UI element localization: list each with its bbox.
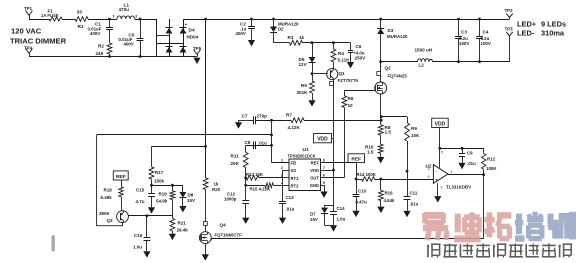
svg-text:LED+: LED+ bbox=[517, 20, 537, 29]
transistor Q4 mosfet bbox=[199, 232, 211, 244]
svg-text:R12: R12 bbox=[487, 157, 496, 162]
wire bridge AC stub upper bbox=[157, 35, 170, 37]
svg-text:OUT: OUT bbox=[310, 176, 319, 181]
wire U2 gnd bbox=[437, 183, 439, 196]
capacitor C16 bbox=[146, 216, 148, 238]
resistor R9 bbox=[405, 123, 410, 141]
svg-text:C14: C14 bbox=[337, 206, 346, 211]
net label REF left bbox=[113, 171, 128, 180]
pin marker Q2 bbox=[377, 72, 381, 76]
svg-text:GND: GND bbox=[310, 183, 319, 188]
svg-text:1.0u: 1.0u bbox=[133, 245, 142, 250]
capacitor C5 bbox=[140, 19, 142, 38]
watermark subtitle char 3 bbox=[459, 244, 461, 257]
svg-text:4.7u: 4.7u bbox=[136, 199, 145, 204]
svg-text:C8: C8 bbox=[245, 140, 251, 145]
ground U1 pin5 bbox=[320, 192, 327, 198]
wire Q2 gate row bbox=[344, 90, 374, 92]
svg-text:5.11K: 5.11K bbox=[338, 58, 351, 63]
svg-text:54.9k: 54.9k bbox=[156, 199, 168, 204]
capacitor C8 bbox=[253, 141, 255, 149]
capacitor C2 bbox=[251, 19, 253, 26]
wire fuse to R1 bbox=[62, 19, 75, 21]
ground below C9 bbox=[458, 163, 465, 169]
svg-text:C13: C13 bbox=[286, 195, 295, 200]
resistor R21 bbox=[172, 216, 174, 219]
svg-text:C6: C6 bbox=[356, 44, 362, 49]
svg-text:33: 33 bbox=[77, 10, 83, 16]
svg-text:L2: L2 bbox=[419, 63, 425, 68]
junction R4 top bbox=[332, 41, 335, 44]
svg-text:R20: R20 bbox=[212, 187, 221, 192]
svg-text:100V: 100V bbox=[481, 41, 491, 46]
wire bridge right column bbox=[183, 19, 185, 57]
svg-text:7: 7 bbox=[323, 166, 325, 170]
ground below R21 bbox=[169, 234, 176, 240]
wire pin8 to REF box bbox=[327, 162, 356, 164]
svg-text:R4: R4 bbox=[338, 51, 344, 56]
watermark subtitle char 8 bbox=[542, 244, 556, 246]
diode D5 zener bbox=[312, 43, 314, 57]
svg-text:29.4k: 29.4k bbox=[177, 227, 189, 232]
capacitor C11 bbox=[407, 171, 409, 197]
svg-text:R18: R18 bbox=[104, 188, 113, 193]
svg-text:5: 5 bbox=[323, 181, 325, 185]
wire top rail to TP2 bbox=[183, 19, 510, 21]
junction left net bbox=[270, 134, 273, 137]
wire sense to R9 bbox=[381, 116, 407, 118]
resistor R18 bbox=[121, 180, 123, 187]
junction RT1 left bbox=[244, 176, 247, 179]
svg-text:1.0u: 1.0u bbox=[337, 217, 346, 222]
svg-text:FB: FB bbox=[291, 161, 297, 166]
junction R2 bottom bbox=[108, 55, 111, 58]
svg-text:100V: 100V bbox=[459, 41, 469, 46]
wire bottom rail input bbox=[29, 56, 197, 58]
net label REF right bbox=[348, 154, 365, 163]
ground below C10 bbox=[352, 211, 359, 217]
junction C4 top bbox=[478, 18, 481, 21]
wire FB row to pin1 bbox=[272, 162, 290, 164]
wire clamp bottom bar bbox=[325, 225, 334, 227]
svg-text:MURA120: MURA120 bbox=[387, 34, 408, 39]
wire R1 to L1 bbox=[88, 19, 117, 21]
ground below R5 bbox=[308, 100, 315, 106]
ground below D8 bbox=[179, 206, 186, 212]
wire L1 to bridge bbox=[135, 19, 157, 21]
junction node A bbox=[150, 184, 153, 187]
U1 pin3 RT1 bbox=[284, 177, 290, 179]
svg-text:R19: R19 bbox=[159, 192, 168, 197]
svg-text:3906: 3906 bbox=[99, 211, 110, 216]
svg-text:0.47u: 0.47u bbox=[356, 200, 368, 205]
junction Q1 base tap bbox=[311, 72, 314, 75]
svg-text:VDD: VDD bbox=[317, 137, 328, 143]
svg-text:5: 5 bbox=[441, 151, 443, 155]
svg-text:12V: 12V bbox=[299, 62, 308, 67]
wire VDD pin row bbox=[327, 170, 334, 172]
diode bridge top-right bbox=[180, 28, 187, 34]
diode bridge bottom-right bbox=[180, 47, 187, 53]
svg-text:C16: C16 bbox=[134, 233, 143, 238]
svg-text:R3: R3 bbox=[288, 35, 294, 40]
junction D2 rail bbox=[272, 18, 275, 21]
svg-text:C9: C9 bbox=[467, 151, 473, 156]
wire Q2 source down bbox=[380, 94, 382, 125]
svg-text:D7: D7 bbox=[310, 212, 316, 217]
svg-text:4.12K: 4.12K bbox=[288, 125, 301, 130]
junction U2 output bbox=[482, 173, 485, 176]
wire RT bias column bbox=[245, 178, 247, 201]
svg-text:U1: U1 bbox=[303, 147, 309, 153]
resistor R12 bbox=[482, 153, 486, 169]
U1 pin8 REF bbox=[321, 162, 328, 164]
diode D3 bbox=[380, 19, 382, 28]
resistor R6 bbox=[344, 91, 346, 96]
svg-text:Q2: Q2 bbox=[385, 66, 392, 71]
wire bridge AC stub lower bbox=[157, 43, 184, 45]
ground below C14 bbox=[330, 225, 337, 231]
svg-text:REF: REF bbox=[311, 161, 320, 166]
watermark subtitle char 5 bbox=[493, 245, 495, 258]
resistor R20 bbox=[203, 178, 208, 190]
net label VDD right bbox=[432, 118, 449, 127]
capacitor C1 bbox=[109, 19, 111, 27]
svg-text:R7: R7 bbox=[286, 112, 292, 117]
wire Q3 emitter row bbox=[128, 215, 172, 217]
svg-text:R2: R2 bbox=[98, 44, 104, 49]
U1 pin4 RT2 bbox=[284, 185, 290, 187]
wire VDD to clamp bbox=[333, 170, 335, 205]
svg-text:R14 100K: R14 100K bbox=[357, 172, 377, 177]
wire L2 to output bbox=[433, 61, 510, 63]
svg-text:C4: C4 bbox=[483, 30, 489, 35]
wire Q1 emitter down to VDD node bbox=[333, 80, 335, 170]
node TP1 test point bbox=[26, 11, 29, 16]
svg-text:1: 1 bbox=[451, 170, 453, 174]
svg-text:FQT1N60CTF: FQT1N60CTF bbox=[215, 233, 243, 238]
ground below C16 bbox=[143, 251, 150, 257]
node A row bbox=[152, 185, 183, 187]
svg-text:Q3: Q3 bbox=[107, 218, 114, 223]
svg-text:TRIAC DIMMER: TRIAC DIMMER bbox=[10, 37, 67, 46]
wire U1 gnd bbox=[324, 185, 326, 192]
svg-text:2: 2 bbox=[281, 166, 283, 170]
svg-text:RT1: RT1 bbox=[291, 176, 300, 181]
svg-text:15V: 15V bbox=[187, 198, 195, 203]
svg-text:R6: R6 bbox=[348, 96, 354, 101]
junction REF node bbox=[355, 178, 358, 181]
ground below C13 bbox=[279, 218, 286, 224]
junction C11 tap bbox=[406, 170, 409, 173]
svg-text:.01u: .01u bbox=[258, 140, 267, 145]
junction C1 top bbox=[108, 18, 111, 21]
resistor R16 bbox=[380, 179, 382, 190]
svg-text:.01u: .01u bbox=[467, 161, 476, 166]
capacitor C14 bbox=[333, 205, 335, 212]
svg-text:6: 6 bbox=[323, 174, 325, 178]
U1 pin7 VDD bbox=[321, 170, 328, 172]
svg-text:150k: 150k bbox=[154, 178, 165, 183]
junction C3 top bbox=[457, 18, 460, 21]
svg-text:.01u: .01u bbox=[286, 206, 295, 211]
pin marker Q4 bbox=[204, 222, 208, 226]
svg-text:HD04: HD04 bbox=[187, 35, 199, 40]
svg-text:9 LEDs: 9 LEDs bbox=[541, 20, 566, 29]
svg-text:1000p: 1000p bbox=[224, 197, 237, 202]
wire switch node row bbox=[381, 61, 418, 63]
svg-text:+: + bbox=[185, 23, 188, 28]
junction C2 rail bbox=[250, 18, 253, 21]
watermark subtitle char 4 bbox=[476, 244, 490, 246]
capacitor C15 bbox=[151, 185, 153, 194]
junction D5 top bbox=[311, 41, 314, 44]
ground below C15 bbox=[148, 207, 155, 213]
transistor Q3 bbox=[117, 211, 129, 223]
op-amp U2 TL331KDBV bbox=[433, 165, 448, 184]
svg-text:2: 2 bbox=[441, 185, 443, 189]
svg-text:TPS92001DCK: TPS92001DCK bbox=[288, 154, 316, 159]
op-amp U1 TPS92001DCK box bbox=[289, 159, 321, 191]
diode D2 bbox=[273, 19, 275, 27]
watermark char 2 bbox=[455, 214, 461, 233]
svg-text:D3: D3 bbox=[388, 28, 394, 33]
svg-text:4.64k: 4.64k bbox=[384, 198, 396, 203]
node TP4 test point bbox=[26, 49, 29, 54]
watermark subtitle char 9 bbox=[559, 245, 561, 258]
wire Q4 gate row bbox=[211, 238, 213, 240]
svg-text:TP3: TP3 bbox=[505, 27, 514, 32]
transistor Q2 mosfet bbox=[380, 62, 382, 82]
junction FB tap bbox=[270, 119, 273, 122]
wire feedback row to R7 bbox=[304, 120, 381, 122]
wire Q1 base bbox=[312, 73, 328, 75]
junction C5 bottom bbox=[139, 55, 142, 58]
wire output down to Q4 gate bbox=[483, 175, 485, 238]
svg-text:1.5: 1.5 bbox=[367, 149, 374, 154]
resistor R8 bbox=[378, 125, 383, 135]
watermark char 4 bbox=[516, 214, 522, 235]
svg-text:400V: 400V bbox=[90, 31, 100, 36]
svg-text:1A FUSE: 1A FUSE bbox=[41, 13, 59, 18]
svg-text:400V: 400V bbox=[124, 42, 134, 47]
ground below C2 bbox=[248, 40, 255, 46]
junction C5 top bbox=[139, 18, 142, 21]
svg-text:REF: REF bbox=[116, 174, 126, 180]
watermark char 1 bbox=[424, 212, 444, 219]
wire REF column bbox=[356, 163, 358, 179]
svg-text:470u: 470u bbox=[119, 7, 130, 12]
wire VDD stub bbox=[439, 128, 441, 149]
resistor R15 bbox=[246, 185, 265, 187]
svg-text:250V: 250V bbox=[355, 56, 367, 61]
net label VDD left bbox=[314, 134, 332, 143]
svg-text:FQT4N25: FQT4N25 bbox=[388, 74, 408, 79]
diode bridge bottom-left bbox=[166, 47, 173, 53]
capacitor C9 bbox=[462, 148, 464, 154]
wire C8 row bbox=[246, 145, 272, 147]
wire top rail input bbox=[29, 19, 49, 21]
svg-text:270p: 270p bbox=[257, 114, 268, 119]
svg-text:R17: R17 bbox=[155, 170, 164, 175]
capacitor C10 bbox=[356, 179, 358, 194]
wire U2 output bbox=[448, 174, 484, 176]
watermark char 5 bbox=[547, 214, 553, 228]
svg-text:5.49k: 5.49k bbox=[101, 195, 113, 200]
junction R14 R16 bbox=[380, 178, 383, 181]
wire startup vertical from rail bbox=[205, 19, 207, 178]
svg-text:VDD: VDD bbox=[310, 168, 319, 173]
diode D8 zener bbox=[182, 185, 184, 192]
svg-text:TP4: TP4 bbox=[24, 46, 33, 51]
svg-text:RT2: RT2 bbox=[291, 183, 300, 188]
svg-text:R16: R16 bbox=[385, 191, 394, 196]
svg-text:R1: R1 bbox=[78, 24, 84, 30]
U1 pin6 OUT bbox=[321, 177, 328, 179]
svg-text:249: 249 bbox=[96, 51, 104, 56]
svg-text:TP2: TP2 bbox=[505, 8, 514, 13]
gray tick mark bbox=[52, 235, 55, 252]
svg-text:15V: 15V bbox=[310, 217, 318, 222]
watermark subtitle char 7 bbox=[525, 244, 527, 257]
resistor R4 bbox=[333, 43, 335, 49]
svg-text:C10: C10 bbox=[358, 188, 367, 193]
junction C8 right bbox=[270, 144, 273, 147]
svg-text:.01u: .01u bbox=[410, 202, 419, 207]
svg-text:R9: R9 bbox=[411, 126, 417, 131]
svg-text:20K: 20K bbox=[231, 161, 240, 166]
ground below R10 bbox=[377, 157, 384, 163]
fuse F1 bbox=[49, 17, 62, 21]
U1 pin5 GND bbox=[321, 185, 325, 187]
capacitor C7 bbox=[256, 120, 291, 122]
capacitor C13 on SS bbox=[282, 170, 284, 201]
ground below C6 bbox=[347, 62, 354, 68]
junction startup rail bbox=[204, 18, 207, 21]
watermark subtitle char 6 bbox=[509, 244, 523, 246]
svg-text:D4: D4 bbox=[189, 28, 195, 34]
svg-text:R13 10K: R13 10K bbox=[246, 172, 264, 177]
junction VDD node bbox=[332, 169, 335, 172]
svg-text:VDD: VDD bbox=[435, 121, 446, 127]
resistor R14 bbox=[356, 179, 362, 181]
svg-text:Q4: Q4 bbox=[220, 222, 227, 227]
svg-text:FZT757TA: FZT757TA bbox=[338, 78, 360, 83]
svg-text:1: 1 bbox=[281, 159, 283, 163]
svg-text:1k: 1k bbox=[299, 35, 305, 40]
resistor R19 bbox=[172, 185, 174, 191]
U1 pin2 SS bbox=[283, 170, 290, 172]
wire OUT row bbox=[327, 177, 344, 179]
U1 pin1 FB bbox=[285, 162, 290, 164]
ground below Q4 bbox=[202, 254, 209, 260]
junction VDD row bbox=[438, 147, 441, 150]
ground below C11 bbox=[403, 211, 410, 217]
svg-text:1.5: 1.5 bbox=[385, 130, 392, 135]
svg-text:100K: 100K bbox=[486, 166, 497, 171]
svg-text:4: 4 bbox=[428, 167, 430, 171]
wire VDD supply row bbox=[440, 148, 484, 150]
svg-text:1k: 1k bbox=[214, 182, 219, 187]
svg-text:120 VAC: 120 VAC bbox=[11, 27, 42, 36]
resistor R11 bbox=[245, 145, 247, 152]
svg-text:Q1: Q1 bbox=[339, 71, 346, 76]
watermark char 3 bbox=[486, 212, 492, 237]
wire Q3 base loop bbox=[97, 135, 123, 226]
resistor R1 bbox=[75, 17, 88, 22]
svg-text:301K: 301K bbox=[297, 90, 309, 95]
svg-text:D2: D2 bbox=[278, 26, 284, 31]
junction drain node upper bbox=[380, 115, 383, 118]
ground below U2 bbox=[434, 196, 441, 202]
wire U2 vplus bbox=[439, 148, 441, 168]
node TP2 test point bbox=[506, 14, 509, 18]
transistor Q1 bbox=[327, 68, 338, 79]
svg-text:SS: SS bbox=[291, 168, 297, 173]
ground below C7 left bbox=[238, 120, 240, 122]
wire FB column bbox=[271, 120, 273, 162]
resistor R7 bbox=[291, 118, 304, 123]
resistor R5 bbox=[310, 81, 315, 93]
svg-text:C15: C15 bbox=[136, 188, 145, 193]
capacitor C3 bbox=[458, 19, 460, 36]
junction drain node lower bbox=[380, 119, 383, 122]
svg-text:10K: 10K bbox=[411, 133, 420, 138]
wire R17 feed row bbox=[152, 146, 206, 148]
wire long left net bbox=[97, 134, 272, 136]
capacitor C12 bbox=[242, 200, 249, 202]
svg-text:310ma: 310ma bbox=[541, 29, 565, 38]
wire bridge left column bbox=[169, 19, 171, 57]
inductor L1 bbox=[117, 16, 135, 19]
svg-text:R11: R11 bbox=[231, 154, 240, 159]
watermark subtitle char 1 bbox=[427, 245, 429, 258]
svg-text:R5: R5 bbox=[301, 83, 307, 88]
ground below C12 bbox=[242, 218, 249, 224]
resistor R3 bbox=[274, 42, 290, 44]
junction C4 bottom bbox=[478, 60, 481, 63]
resistor R13 bbox=[246, 175, 259, 180]
junction C16 tap bbox=[146, 214, 149, 217]
svg-text:400V: 400V bbox=[236, 31, 246, 36]
capacitor C4 bbox=[479, 19, 481, 36]
ground below R16 bbox=[377, 207, 384, 213]
junction switch node bbox=[379, 60, 382, 63]
watermark subtitle char 2 bbox=[443, 244, 457, 246]
svg-text:C3: C3 bbox=[461, 30, 467, 35]
inductor L2 bbox=[418, 59, 433, 62]
svg-text:R21: R21 bbox=[178, 221, 187, 226]
svg-text:8: 8 bbox=[323, 159, 325, 163]
svg-text:LED-: LED- bbox=[517, 29, 535, 38]
svg-text:C7: C7 bbox=[242, 114, 248, 119]
svg-text:1500 uH: 1500 uH bbox=[415, 48, 433, 53]
junction RT2 left bbox=[244, 184, 247, 187]
junction C3 bottom bbox=[457, 60, 460, 63]
ground below TP5 bbox=[193, 58, 200, 64]
resistor R2 bbox=[107, 43, 112, 54]
junction D3 rail bbox=[379, 18, 382, 21]
svg-text:TL331KDBV: TL331KDBV bbox=[446, 185, 471, 190]
junction startup feed bbox=[204, 145, 207, 148]
diode D7 zener bbox=[325, 205, 334, 207]
svg-text:R15 4.22K: R15 4.22K bbox=[250, 187, 271, 192]
junction R19 top bbox=[171, 184, 174, 187]
capacitor C6 bbox=[350, 43, 352, 50]
svg-text:3: 3 bbox=[428, 175, 430, 179]
svg-text:REF: REF bbox=[351, 156, 361, 162]
pin marker Q1 bbox=[330, 82, 334, 86]
